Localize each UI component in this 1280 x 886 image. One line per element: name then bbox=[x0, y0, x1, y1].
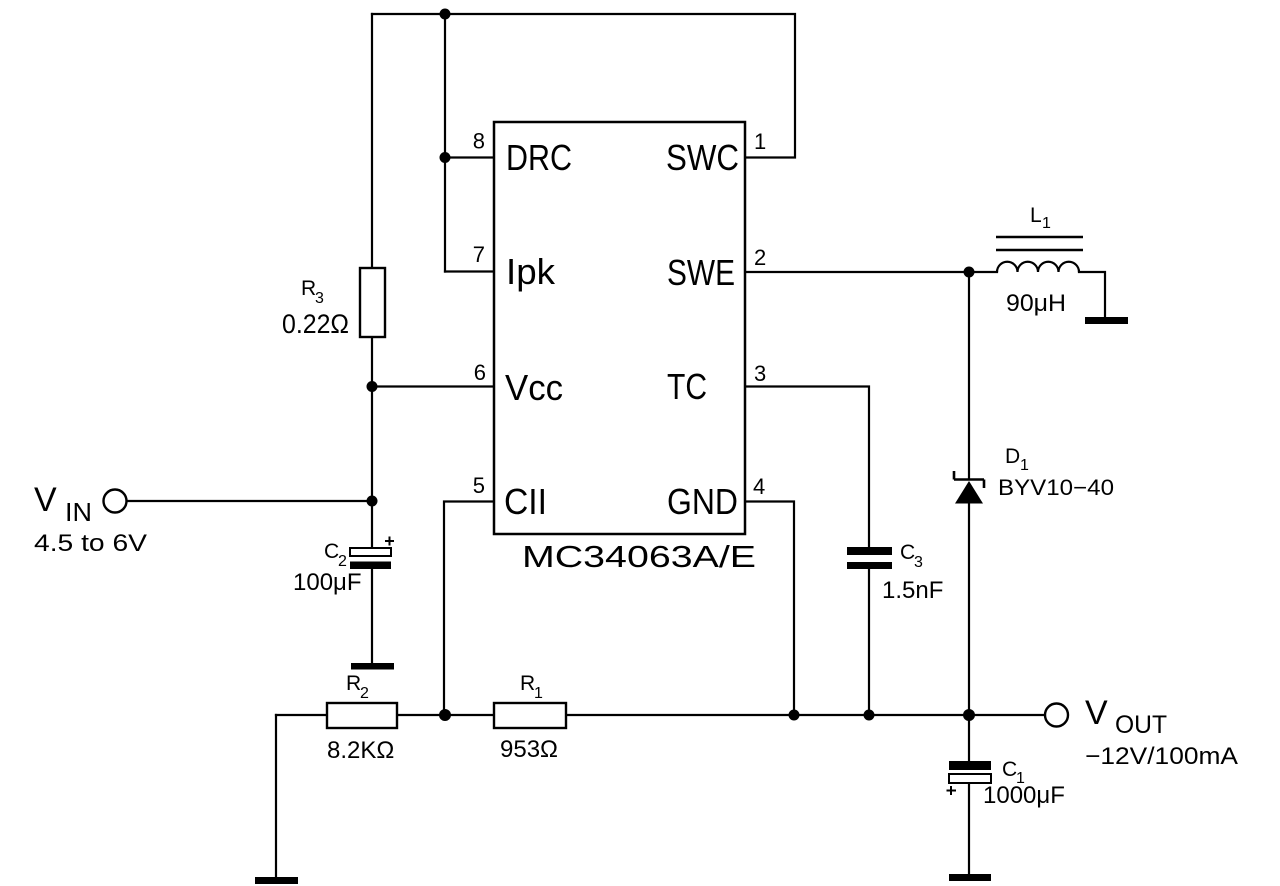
junction pin 8 / DRC bbox=[440, 152, 451, 163]
resistor R1 body bbox=[494, 703, 566, 728]
wire D1 vertical upper bbox=[968, 272, 970, 479]
junction R2 / R1 / CII branch bbox=[439, 709, 451, 721]
inductor L1 coil bbox=[997, 262, 1079, 272]
wire inductor right to ground bbox=[1079, 272, 1105, 317]
ground (L1) bbox=[1085, 317, 1128, 324]
wire bottom rail bbox=[276, 714, 1045, 716]
wire pin 8 stub bbox=[445, 156, 494, 158]
wire second vertical (top wire to pin 7) bbox=[444, 14, 446, 272]
wire left vertical upper (top wire to R3) bbox=[371, 14, 373, 268]
svg-text:2: 2 bbox=[754, 245, 766, 270]
resistor R3 body bbox=[360, 268, 385, 337]
wire C3 bottom to rail bbox=[868, 569, 870, 715]
svg-text:Ipk: Ipk bbox=[506, 251, 556, 292]
svg-text:1.5nF: 1.5nF bbox=[882, 577, 943, 604]
svg-text:2: 2 bbox=[360, 685, 369, 702]
svg-text:V: V bbox=[1085, 694, 1108, 732]
junction SWE / D1 / L1 bbox=[964, 267, 975, 278]
svg-text:2: 2 bbox=[338, 553, 347, 570]
junction V_IN / C2 bbox=[367, 496, 378, 507]
wire GND pin 4 branch bbox=[745, 502, 794, 716]
svg-text:4.5 to 6V: 4.5 to 6V bbox=[34, 530, 147, 557]
svg-text:3: 3 bbox=[914, 554, 923, 571]
label V_OUT bbox=[1085, 694, 1238, 770]
svg-text:DRC: DRC bbox=[506, 137, 572, 178]
wire R3 bottom to C2 top bbox=[371, 337, 373, 549]
svg-text:V: V bbox=[34, 481, 57, 519]
svg-text:R: R bbox=[346, 672, 361, 695]
label C3 value bbox=[882, 541, 943, 604]
label D1 value bbox=[998, 445, 1114, 500]
diode D1 BYV10-40 (schottky, pointing up) bbox=[954, 471, 984, 504]
junction D1 / C1 / V_OUT rail bbox=[963, 709, 975, 721]
svg-text:90μH: 90μH bbox=[1006, 290, 1066, 317]
svg-text:MC34063A/E: MC34063A/E bbox=[522, 539, 756, 574]
ground (C2) bbox=[351, 663, 394, 670]
svg-text:1: 1 bbox=[534, 685, 543, 702]
ground (bottom-left, R2) bbox=[255, 877, 298, 884]
wire C2 bottom to ground bbox=[371, 569, 373, 663]
wire TC pin 3 to C3 bbox=[745, 387, 869, 548]
svg-text:6: 6 bbox=[474, 360, 486, 385]
wire C1 stub upper bbox=[968, 715, 970, 761]
label C2 value bbox=[293, 540, 362, 596]
svg-text:SWE: SWE bbox=[667, 252, 735, 293]
label C1 value bbox=[983, 758, 1065, 809]
capacitor C1 plates bbox=[947, 761, 992, 795]
svg-text:100μF: 100μF bbox=[293, 569, 362, 596]
svg-text:3: 3 bbox=[754, 361, 766, 386]
svg-text:OUT: OUT bbox=[1115, 711, 1167, 739]
svg-text:−12V/100mA: −12V/100mA bbox=[1085, 743, 1238, 770]
wire V_IN to junction bbox=[127, 500, 372, 502]
svg-text:SWC: SWC bbox=[666, 137, 739, 178]
pin number 8 bbox=[473, 129, 767, 500]
capacitor C3 plates bbox=[847, 547, 892, 569]
svg-text:BYV10−40: BYV10−40 bbox=[998, 475, 1114, 500]
inductor L1 core bars bbox=[996, 237, 1083, 250]
svg-text:C: C bbox=[900, 541, 915, 564]
junction GND pin 4 / rail bbox=[789, 710, 800, 721]
junction R3 bottom / Vcc pin 6 bbox=[367, 381, 378, 392]
svg-text:C: C bbox=[1002, 758, 1017, 781]
svg-text:Vcc: Vcc bbox=[505, 367, 563, 408]
terminal V_OUT circle bbox=[1045, 704, 1068, 727]
label L1 value bbox=[1006, 204, 1066, 317]
svg-text:CII: CII bbox=[504, 481, 547, 522]
svg-text:3: 3 bbox=[315, 290, 324, 307]
svg-text:1000μF: 1000μF bbox=[983, 782, 1065, 809]
svg-text:953Ω: 953Ω bbox=[500, 736, 558, 763]
svg-text:R: R bbox=[520, 672, 535, 695]
label R1 value bbox=[500, 672, 558, 763]
svg-text:0.22Ω: 0.22Ω bbox=[282, 309, 349, 339]
svg-text:L: L bbox=[1030, 204, 1042, 227]
junction top wire / pin 8 branch bbox=[440, 9, 451, 20]
svg-text:1: 1 bbox=[1042, 215, 1051, 232]
wire top loop from R3 branch to pin 1 bbox=[372, 14, 795, 158]
svg-text:1: 1 bbox=[754, 129, 766, 154]
svg-text:TC: TC bbox=[667, 366, 707, 407]
terminal V_IN circle bbox=[104, 490, 127, 513]
wire bottom-left ground drop bbox=[275, 715, 277, 877]
svg-text:8: 8 bbox=[473, 129, 485, 154]
svg-text:GND: GND bbox=[667, 481, 738, 522]
junction C3 / rail bbox=[864, 710, 875, 721]
svg-text:IN: IN bbox=[65, 497, 92, 527]
svg-text:D: D bbox=[1005, 445, 1020, 468]
svg-text:R: R bbox=[301, 277, 316, 300]
wire C1 bottom to ground bbox=[968, 783, 970, 875]
label R2 value bbox=[327, 672, 394, 764]
svg-text:1: 1 bbox=[1020, 457, 1029, 474]
wire pin 7 stub bbox=[445, 270, 494, 272]
label V_IN bbox=[34, 481, 147, 557]
wire CII pin 5 branch bbox=[444, 502, 494, 716]
resistor R2 body bbox=[327, 703, 397, 728]
svg-text:7: 7 bbox=[473, 242, 485, 267]
ground (C1) bbox=[949, 874, 991, 881]
wire D1 vertical lower bbox=[968, 503, 970, 715]
svg-text:4: 4 bbox=[753, 474, 765, 499]
wire SWE pin 2 to inductor bbox=[745, 271, 997, 273]
svg-text:C: C bbox=[324, 540, 339, 563]
capacitor C2 plates bbox=[350, 537, 394, 570]
svg-text:8.2KΩ: 8.2KΩ bbox=[327, 737, 394, 764]
IC U1 MC34063A/E box bbox=[494, 122, 745, 534]
label R3 value bbox=[282, 277, 349, 339]
svg-text:5: 5 bbox=[473, 473, 485, 498]
wire Vcc pin 6 bbox=[372, 385, 494, 387]
